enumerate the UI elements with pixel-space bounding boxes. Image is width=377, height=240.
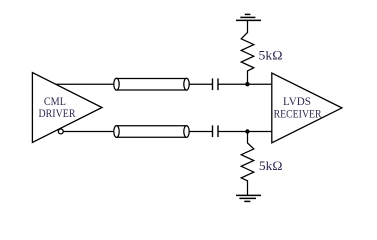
wire from CML driver noninverting output to top transmission line xyxy=(56,83,114,85)
svg-text:5kΩ: 5kΩ xyxy=(259,158,283,173)
wire from C1 to LVDS receiver top input xyxy=(218,83,272,85)
op-amp LVDS receiver triangle xyxy=(272,73,342,143)
op-amp CML driver triangle xyxy=(32,73,102,143)
wire from T2 to capacitor C2 xyxy=(189,131,212,133)
label CML DRIVER xyxy=(39,96,76,120)
resistor R2 (bottom 5k pulldown) xyxy=(241,134,254,196)
svg-text:LVDS: LVDS xyxy=(283,96,311,108)
svg-text:DRIVER: DRIVER xyxy=(39,108,76,120)
ground top (inverted earth symbol) xyxy=(236,14,261,20)
capacitor C2 (bottom coupling cap) xyxy=(213,125,219,137)
node junction bottom (dot) xyxy=(245,129,249,133)
label LVDS RECEIVER xyxy=(274,96,322,121)
inversion bubble on CML driver inverting output xyxy=(58,129,63,134)
wire from T1 to capacitor C1 xyxy=(189,83,212,85)
wire from bubble to bottom transmission line xyxy=(63,131,113,133)
wire from C2 to LVDS receiver bottom input xyxy=(218,131,272,133)
node junction top (dot) xyxy=(245,82,249,86)
transmission line T1 (top coax cylinder) xyxy=(114,78,189,90)
resistor R1 (top 5k pullup) xyxy=(241,20,254,82)
capacitor C1 (top coupling cap) xyxy=(213,78,219,90)
transmission line T2 (bottom coax cylinder) xyxy=(114,126,189,138)
svg-text:CML: CML xyxy=(44,96,66,108)
svg-text:RECEIVER: RECEIVER xyxy=(274,108,322,120)
ground bottom (earth symbol) xyxy=(236,195,261,201)
svg-text:5kΩ: 5kΩ xyxy=(259,47,283,62)
